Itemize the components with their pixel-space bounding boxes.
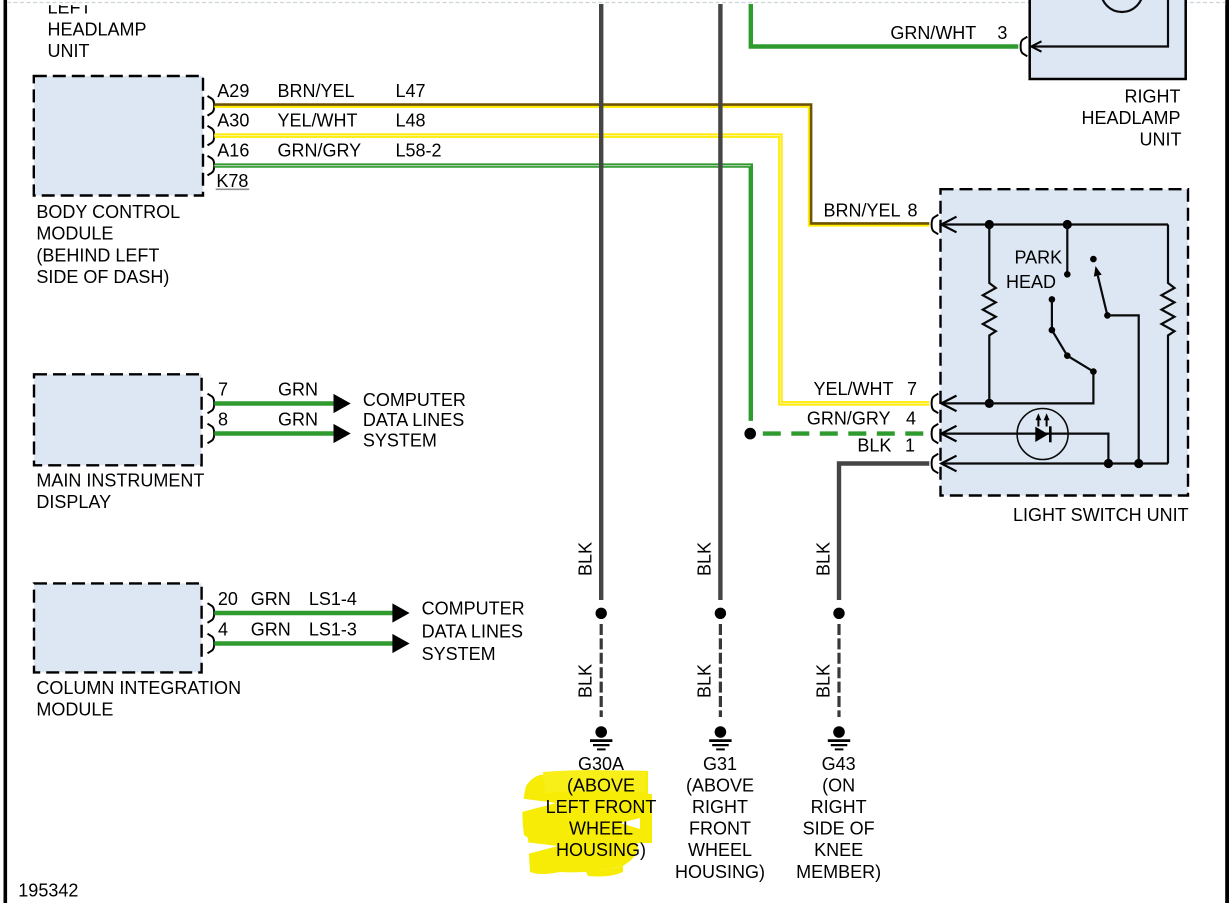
svg-text:MODULE: MODULE [36,700,113,720]
svg-text:DISPLAY: DISPLAY [36,492,111,512]
pin 8 connector (MID) [208,424,215,444]
arrow to computer data lines (MID pin7) [334,394,351,413]
svg-text:LEFT FRONT: LEFT FRONT [546,797,657,817]
svg-text:8: 8 [907,200,917,220]
ground G43 symbol [828,726,850,749]
svg-text:YEL/WHT: YEL/WHT [813,379,893,399]
svg-text:7: 7 [218,380,228,400]
wire BLK dashed to ground G43 [837,624,840,717]
label MAIN INSTRUMENT DISPLAY [36,471,204,513]
svg-text:L47: L47 [396,81,426,101]
label COLUMN INTEGRATION MODULE [36,678,241,720]
junction node (pin1 / pin4 branch) [1104,459,1113,468]
right headlamp unit box [1030,0,1186,79]
svg-text:A16: A16 [217,141,249,161]
svg-text:SIDE OF DASH): SIDE OF DASH) [36,267,169,287]
svg-text:(ABOVE: (ABOVE [567,776,635,796]
main instrument display box [34,374,202,465]
wire BLK G30A vertical [599,4,603,600]
svg-text:KNEE: KNEE [814,840,863,860]
svg-text:UNIT: UNIT [48,41,90,61]
LED indicator circle [1017,409,1068,460]
svg-text:BLK: BLK [857,435,891,455]
junction node (pin8 / park contact branch) [1063,220,1072,229]
wire GRN/GRY label pin 4 [807,408,916,428]
svg-text:BLK: BLK [695,664,715,698]
svg-text:HEAD: HEAD [1006,272,1056,292]
svg-text:BRN/YEL: BRN/YEL [278,81,355,101]
ground G31 label [675,754,765,882]
svg-text:MAIN INSTRUMENT: MAIN INSTRUMENT [36,471,204,491]
junction node (pin7 / left resistor) [985,399,994,408]
svg-text:WHEEL: WHEEL [688,840,752,860]
wire GRN/WHT label and pin 3 [890,23,1007,43]
svg-text:LS1-3: LS1-3 [309,620,357,640]
wire BLK dashed to ground G30A [600,624,603,717]
internal wire pin 8 bus [941,223,1168,225]
pin 4 connector (light switch) [932,424,957,444]
svg-text:BODY CONTROL: BODY CONTROL [36,202,180,222]
page top boundary line (redraw) [7,2,1225,4]
wiper pivot wire to pin 1 bus [1107,315,1138,463]
svg-text:HOUSING): HOUSING) [675,862,765,882]
svg-text:RIGHT: RIGHT [1125,86,1181,106]
svg-text:BLK: BLK [576,664,596,698]
wire GRN/GRY dashed to light switch pin 4 [763,431,929,435]
wire GRN (CIM pin 20) [214,611,393,615]
wire YEL/WHT label pin 7 [813,379,917,399]
internal wire pin 4 through LED [941,434,1108,464]
wire GRN (MID pin 8) [214,431,334,435]
pin 1 connector (light switch) [932,454,957,474]
wiper chain node 3 [1090,368,1097,375]
wire GRN/GRY A16 down to splice [214,166,751,421]
LED emission arrows [1036,413,1050,426]
svg-text:8: 8 [218,410,228,430]
svg-text:4: 4 [218,620,228,640]
svg-text:1: 1 [905,435,915,455]
svg-text:GRN: GRN [278,410,318,430]
wire GRN/WHT to right headlamp [751,4,1019,47]
pin K78 underline [216,188,250,190]
svg-text:GRN: GRN [278,380,318,400]
pin 3 connector (right headlamp) [1021,37,1042,57]
svg-text:GRN: GRN [251,620,291,640]
pin 20 connector (CIM) [208,603,215,623]
svg-text:7: 7 [907,379,917,399]
page top boundary line [7,2,1225,4]
pin 7 connector (light switch) [932,394,957,414]
svg-text:HOUSING): HOUSING) [556,840,646,860]
splice node S (G31 wire) [715,608,726,619]
svg-text:COMPUTER: COMPUTER [422,599,525,619]
svg-text:RIGHT: RIGHT [692,797,748,817]
svg-text:SYSTEM: SYSTEM [363,430,437,450]
wire BLK G31 vertical [718,4,722,600]
svg-text:BLK: BLK [813,542,833,576]
svg-text:YEL/WHT: YEL/WHT [278,111,358,131]
resistor (right) [1162,225,1175,464]
svg-text:L48: L48 [396,111,426,131]
svg-text:FRONT: FRONT [689,819,751,839]
wiper chain node 1 [1049,327,1056,334]
page left border [4,0,8,903]
pin 7 connector (MID) [208,394,215,414]
page top clip strip [7,0,1225,5]
svg-text:G43: G43 [822,754,856,774]
ground G30A symbol [590,726,612,749]
svg-text:(BEHIND LEFT: (BEHIND LEFT [36,245,159,265]
svg-text:BLK: BLK [695,542,715,576]
label COMPUTER DATA LINES SYSTEM (CIM) [422,599,525,664]
body control module U-BCM box [34,76,203,196]
wire GRN (CIM pin 4) [214,641,393,645]
column integration module box [34,583,202,672]
light switch unit box [941,189,1189,495]
svg-text:DATA LINES: DATA LINES [363,410,464,430]
svg-text:PARK: PARK [1015,247,1063,267]
arrow to computer data lines (CIM pin20) [392,603,409,622]
park contact branch [1066,225,1068,275]
svg-text:K78: K78 [216,171,248,191]
wiper pivot node [1104,312,1111,319]
svg-text:A30: A30 [217,111,249,131]
svg-text:HEADLAMP: HEADLAMP [48,19,147,39]
svg-text:HEADLAMP: HEADLAMP [1081,108,1180,128]
LED diode symbol [1035,426,1050,442]
pin A30 connector [208,126,215,146]
junction node (pin1 / wiper branch) [1134,459,1143,468]
svg-text:195342: 195342 [18,881,78,901]
svg-text:SIDE OF: SIDE OF [803,819,875,839]
svg-text:G30A: G30A [578,754,624,774]
svg-text:RIGHT: RIGHT [811,797,867,817]
park contact node [1064,271,1071,278]
svg-text:LS1-4: LS1-4 [309,589,357,609]
svg-text:MODULE: MODULE [36,224,113,244]
rotary wiper arm with arrow [1094,266,1108,315]
ground G30A label [546,754,657,860]
svg-text:3: 3 [997,23,1007,43]
page right border [1225,0,1229,903]
svg-text:BRN/YEL: BRN/YEL [823,200,900,220]
svg-text:COMPUTER: COMPUTER [363,390,466,410]
svg-text:(ABOVE: (ABOVE [686,776,754,796]
wire BLK label pin 1 [857,435,915,455]
wire BLK dashed to ground G31 [719,624,722,717]
wire BLK light switch pin 1 to G43 [839,464,929,601]
svg-text:DATA LINES: DATA LINES [422,622,523,642]
splice node S (G43 wire) [833,608,844,619]
svg-text:GRN: GRN [251,589,291,609]
wire BRN/YEL label pin 8 [823,200,917,220]
pin A29 connector [208,96,215,116]
label COMPUTER DATA LINES SYSTEM (MID) [363,390,466,450]
label RIGHT HEADLAMP UNIT [1081,86,1181,149]
svg-text:20: 20 [218,589,238,609]
pin 4 connector (CIM) [208,634,215,654]
svg-text:A29: A29 [217,81,249,101]
ground G31 symbol [709,726,731,749]
svg-text:LIGHT SWITCH UNIT: LIGHT SWITCH UNIT [1013,505,1189,525]
label BODY CONTROL MODULE [36,202,180,287]
svg-text:UNIT: UNIT [1140,129,1182,149]
svg-text:COLUMN INTEGRATION: COLUMN INTEGRATION [36,678,241,698]
switch wiper chain [1052,299,1094,371]
internal wire pin 1 bus [941,462,1168,464]
internal wire pin 3 (right headlamp) [1031,0,1168,47]
headlamp bulb (partial) [1101,0,1143,12]
svg-text:4: 4 [906,408,916,428]
wire GRN (MID pin 7) [214,401,334,405]
svg-text:GRN/GRY: GRN/GRY [278,141,362,161]
splice node S (G30A wire) [596,608,607,619]
svg-text:BLK: BLK [576,542,596,576]
splice node on GRN/GRY wire [744,428,756,440]
svg-text:G31: G31 [703,754,737,774]
svg-text:WHEEL: WHEEL [569,819,633,839]
highlighter mark over G30A location text [516,770,652,877]
pin 8 connector (light switch) [932,215,957,235]
wire BRN/YEL A29 to light switch pin 8 [214,105,929,226]
svg-text:MEMBER): MEMBER) [796,862,881,882]
resistor (left, panel dimmer) [983,225,996,404]
svg-text:GRN/GRY: GRN/GRY [807,408,891,428]
pin A16 connector [208,156,215,176]
ground G43 label [796,754,881,882]
label LEFT HEADLAMP UNIT [48,0,147,61]
arrow to computer data lines (CIM pin4) [392,634,409,653]
rotary wiper contact node [1090,256,1097,263]
junction node (pin8 / left resistor) [985,220,994,229]
svg-text:BLK: BLK [813,664,833,698]
head contact node [1049,296,1056,303]
svg-text:GRN/WHT: GRN/WHT [890,23,976,43]
wire YEL/WHT A30 to light switch pin 7 [214,136,929,404]
svg-text:L58-2: L58-2 [396,141,442,161]
svg-text:SYSTEM: SYSTEM [422,644,496,664]
arrow to computer data lines (MID pin8) [334,424,351,443]
svg-text:(ON: (ON [822,776,855,796]
internal wire pin 7 [941,372,1093,404]
wiper chain node 2 [1064,352,1071,359]
